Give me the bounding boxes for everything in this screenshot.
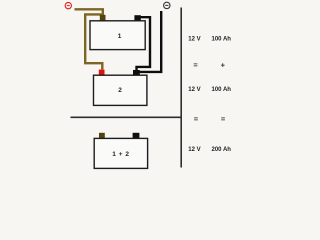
- battery B1 body: [90, 21, 145, 50]
- battery B2 body: [94, 75, 147, 105]
- svg-text:=: =: [193, 61, 198, 70]
- svg-text:1 + 2: 1 + 2: [112, 151, 129, 158]
- wire: black jumper from battery 1 negative to battery 2 negative: [137, 17, 151, 71]
- svg-text:2: 2: [118, 87, 122, 94]
- svg-text:+: +: [221, 61, 226, 70]
- svg-text:200 Ah: 200 Ah: [212, 147, 232, 153]
- divider horizontal line: [71, 116, 183, 118]
- battery B1 negative terminal (black): [134, 15, 140, 21]
- node: black minus terminal circle: [164, 2, 170, 8]
- svg-text:100 Ah: 100 Ah: [212, 87, 232, 93]
- wire: brown lead from red terminal to battery 1 positive: [75, 9, 103, 15]
- svg-text:12 V: 12 V: [188, 147, 200, 153]
- battery B1 positive terminal (brown): [100, 15, 106, 21]
- battery B12 negative terminal (black): [133, 133, 140, 139]
- battery B12 positive terminal (brown): [99, 133, 105, 139]
- node: red minus terminal circle: [65, 2, 71, 8]
- svg-text:=: =: [221, 115, 226, 124]
- battery B2 positive terminal (red): [99, 70, 105, 76]
- svg-text:=: =: [194, 115, 199, 124]
- svg-text:12 V: 12 V: [188, 37, 200, 43]
- svg-text:1: 1: [118, 33, 122, 40]
- wire: black lead from black minus circle to battery 2 negative: [136, 11, 162, 72]
- divider vertical line: [180, 8, 182, 168]
- svg-text:12 V: 12 V: [188, 87, 200, 93]
- svg-text:100 Ah: 100 Ah: [212, 37, 232, 43]
- battery B12 body: [94, 138, 147, 168]
- wire: brown jumper from battery 1 positive down to battery 2 positive: [85, 14, 102, 69]
- battery B2 negative terminal (black): [133, 70, 140, 75]
